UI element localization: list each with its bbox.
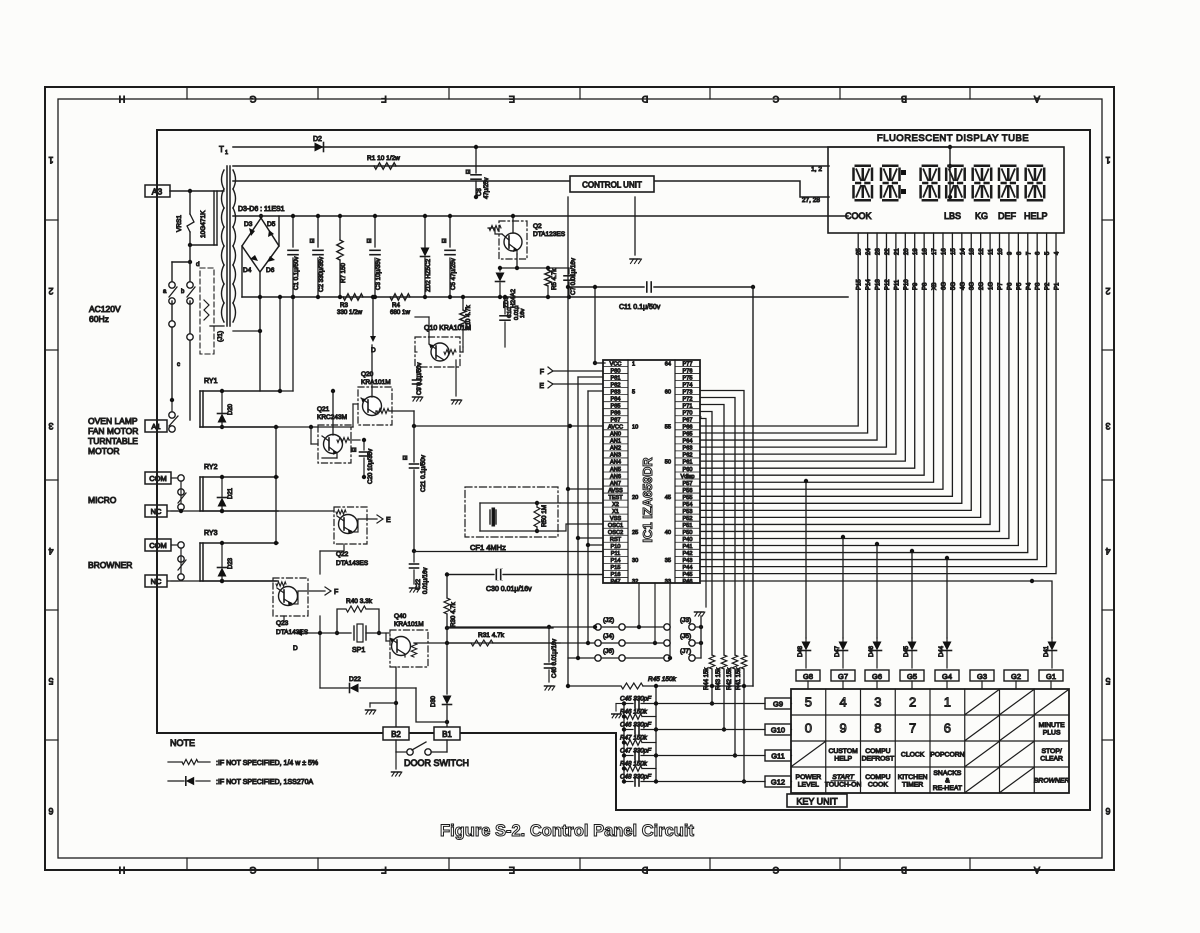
terminal NC bbox=[145, 575, 167, 587]
frame tick left bbox=[45, 609, 58, 611]
svg-text:27, 28: 27, 28 bbox=[802, 197, 820, 204]
key cell blank r4c7 bbox=[1001, 768, 1034, 792]
drawing border inner frame bbox=[58, 99, 1102, 858]
capacitor C11 0.1u/50v bbox=[568, 286, 644, 288]
IC1 pin P83 bbox=[603, 387, 628, 389]
svg-text:P2: P2 bbox=[1045, 282, 1051, 290]
svg-text:4G: 4G bbox=[960, 282, 966, 290]
svg-text:NC: NC bbox=[151, 507, 162, 516]
svg-text:2: 2 bbox=[48, 286, 53, 296]
wire RY3 bottom bbox=[168, 580, 276, 582]
ceramic resonator CF1 4MHz bbox=[465, 487, 558, 537]
positive rail bbox=[233, 215, 848, 217]
svg-text:(J3): (J3) bbox=[680, 617, 691, 624]
svg-text:F: F bbox=[381, 865, 387, 875]
display tube pin 5 wire to IC P44 bbox=[700, 233, 1047, 567]
interlock switch b bbox=[189, 262, 191, 281]
IC1 pin P66 bbox=[675, 422, 700, 424]
IC1 pin P16 bbox=[603, 569, 628, 571]
svg-text:(J7): (J7) bbox=[680, 648, 691, 655]
svg-text:C20 10μ/35v: C20 10μ/35v bbox=[367, 448, 374, 484]
IC1 pin P70 bbox=[675, 408, 700, 410]
IC1 pin P86 bbox=[603, 408, 628, 410]
svg-text:D22: D22 bbox=[349, 676, 361, 683]
wire bridge bottom down bbox=[259, 272, 261, 297]
resistor R48 150k bbox=[624, 768, 626, 770]
svg-text:(J1): (J1) bbox=[217, 331, 224, 342]
svg-text:P3: P3 bbox=[1036, 282, 1042, 290]
svg-text:TOUCH-ON: TOUCH-ON bbox=[825, 781, 862, 788]
svg-text:P13: P13 bbox=[876, 279, 882, 290]
interlock switch a bbox=[172, 261, 190, 263]
svg-text:330 1/2w: 330 1/2w bbox=[337, 309, 363, 316]
svg-text:VRS1: VRS1 bbox=[176, 215, 183, 232]
svg-text:POPCORN: POPCORN bbox=[930, 752, 964, 759]
svg-text:C1 0.1μ/50v: C1 0.1μ/50v bbox=[293, 256, 300, 290]
svg-text:1G: 1G bbox=[989, 282, 995, 290]
svg-text:F: F bbox=[381, 94, 387, 104]
svg-text:1: 1 bbox=[944, 695, 951, 710]
frame tick bottom bbox=[186, 858, 188, 870]
svg-text:22: 22 bbox=[885, 248, 891, 255]
wire G top bus bbox=[796, 675, 820, 677]
svg-text:AC120V: AC120V bbox=[89, 304, 121, 314]
IC1 pin TEST bbox=[603, 492, 628, 494]
wire bus x595 VCC bbox=[594, 287, 596, 363]
resistor R41 15k column P73-G12 bbox=[700, 391, 744, 656]
svg-text:G8: G8 bbox=[803, 672, 813, 681]
svg-text:5: 5 bbox=[1105, 676, 1110, 686]
svg-text:16: 16 bbox=[941, 248, 947, 255]
svg-text:30: 30 bbox=[632, 558, 638, 564]
svg-text:El: El bbox=[310, 239, 316, 243]
wire D2 rail junction bbox=[949, 147, 951, 197]
svg-text:15: 15 bbox=[951, 248, 957, 255]
svg-text:Q2: Q2 bbox=[533, 223, 542, 230]
terminal A3 bbox=[145, 185, 170, 197]
IC1 pin P84 bbox=[603, 394, 628, 396]
svg-text:10: 10 bbox=[632, 425, 638, 431]
display tube pin 9 wire to IC P40 bbox=[700, 233, 1009, 538]
key cell blank r1c6 bbox=[966, 690, 999, 714]
frame tick right bbox=[1102, 349, 1114, 351]
IC1 pin P51 bbox=[675, 520, 700, 522]
svg-text:D48: D48 bbox=[798, 645, 804, 657]
svg-text:G9: G9 bbox=[773, 700, 783, 709]
capacitor C46 330pF bbox=[624, 729, 633, 731]
frame tick right bbox=[1102, 609, 1114, 611]
svg-text:10G471K: 10G471K bbox=[200, 210, 207, 238]
svg-text:6: 6 bbox=[1105, 806, 1110, 816]
wire transformer primary bottom to c bbox=[210, 325, 224, 327]
svg-text:A: A bbox=[1034, 865, 1040, 875]
svg-text:8: 8 bbox=[874, 721, 881, 736]
diode D48 bbox=[805, 638, 807, 641]
wire Q20 collector up bbox=[371, 345, 373, 397]
transistor Q23 DTA143ES bbox=[273, 578, 308, 616]
wire bus x588 bbox=[587, 391, 589, 643]
svg-text:4: 4 bbox=[1105, 546, 1110, 556]
svg-text:G6: G6 bbox=[872, 672, 882, 681]
svg-text:24: 24 bbox=[866, 248, 872, 255]
svg-text:D5: D5 bbox=[267, 221, 276, 228]
svg-text:P11: P11 bbox=[894, 279, 900, 290]
svg-text:DOOR SWITCH: DOOR SWITCH bbox=[404, 758, 469, 768]
display tube pin 21 wire to IC P62 bbox=[700, 233, 896, 454]
display digit 4 bbox=[946, 166, 965, 201]
svg-text:E: E bbox=[386, 517, 391, 524]
display tube pin 11 wire to IC P51 bbox=[700, 233, 990, 524]
IC1 pin P42 bbox=[675, 548, 700, 550]
wire transformer tap bbox=[233, 330, 260, 332]
IC1 pin P82 bbox=[603, 380, 628, 382]
IC1 pin OSC1 bbox=[603, 520, 628, 522]
wire Q21 emitter to Q20 bbox=[349, 439, 360, 441]
IC1 pin P47 bbox=[603, 576, 628, 578]
svg-text:C47 330pF: C47 330pF bbox=[620, 748, 652, 755]
IC1 pin P85 bbox=[603, 401, 628, 403]
wire RY1 bottom rail to Q20 base bbox=[200, 426, 353, 428]
svg-text:20: 20 bbox=[904, 248, 910, 255]
svg-text:RY3: RY3 bbox=[204, 530, 218, 537]
IC1 pin P10 bbox=[603, 541, 628, 543]
svg-text:P5: P5 bbox=[1017, 282, 1023, 290]
ground Q10 emitter bbox=[455, 360, 457, 396]
svg-text:OVEN LAMP: OVEN LAMP bbox=[88, 416, 138, 426]
svg-text:D4: D4 bbox=[243, 267, 252, 274]
svg-text:Q21: Q21 bbox=[317, 406, 330, 413]
svg-text:55: 55 bbox=[665, 425, 671, 431]
svg-text:D3-D6 : 11ES1: D3-D6 : 11ES1 bbox=[238, 206, 285, 213]
wire bridge top to +rail bbox=[260, 216, 262, 218]
capacitor C48 330pF bbox=[624, 781, 633, 783]
svg-text:6: 6 bbox=[944, 721, 951, 736]
svg-text:3: 3 bbox=[874, 695, 881, 710]
wire key column G1 bbox=[700, 580, 1032, 582]
IC1 pin P64 bbox=[675, 436, 700, 438]
svg-text:KG: KG bbox=[975, 211, 988, 221]
wire IC bottom feeds to J rows bbox=[638, 583, 640, 627]
wire Q40 collector down to B2 bbox=[395, 667, 397, 728]
svg-text:COM: COM bbox=[149, 474, 167, 483]
IC1 pin P76 bbox=[675, 366, 700, 368]
wire ladder rail left bbox=[623, 704, 625, 782]
display tube pin 22 wire to IC P63 bbox=[700, 233, 886, 447]
wire key column tap D48 bbox=[805, 481, 807, 638]
relay contact NC1 bbox=[171, 510, 178, 512]
wire key column tap D46 bbox=[876, 544, 878, 638]
svg-text:(J5): (J5) bbox=[680, 633, 691, 640]
svg-text:COM: COM bbox=[149, 541, 167, 550]
svg-text:CLOCK: CLOCK bbox=[901, 752, 925, 759]
IC1 pin AN6 bbox=[603, 471, 628, 473]
svg-text:E: E bbox=[509, 865, 515, 875]
IC1 pin AN1 bbox=[603, 436, 628, 438]
wire IC P67 column bbox=[700, 416, 701, 418]
svg-text:T: T bbox=[219, 145, 224, 154]
capacitor C10 0.01u/16v bbox=[504, 297, 506, 314]
IC1 pin P40 bbox=[675, 534, 700, 536]
svg-text:G: G bbox=[249, 865, 256, 875]
wire Q10 area bbox=[462, 347, 464, 352]
transistor Q2 DTA123ES bbox=[499, 221, 527, 259]
svg-text:5: 5 bbox=[805, 695, 812, 710]
wire SP1 left to net D bbox=[320, 632, 337, 634]
svg-text:47μ/25v: 47μ/25v bbox=[484, 178, 490, 199]
relay contact A1 bbox=[171, 425, 172, 427]
svg-text:&: & bbox=[945, 778, 950, 785]
svg-text:NOTE: NOTE bbox=[170, 738, 195, 748]
frame tick right bbox=[1102, 219, 1114, 221]
resistor R4 680 1w bbox=[390, 294, 410, 300]
capacitor C2 330u/35s bbox=[317, 216, 319, 247]
svg-text:El: El bbox=[367, 239, 373, 243]
wire bridge left vertex down bbox=[241, 246, 243, 297]
svg-text:3: 3 bbox=[48, 421, 53, 431]
capacitor C1 0.1u/50v bbox=[292, 216, 294, 247]
svg-text:P6: P6 bbox=[1007, 282, 1013, 290]
frame tick bottom bbox=[317, 858, 319, 870]
svg-text:HELP: HELP bbox=[1024, 211, 1048, 221]
key unit keypad grid bbox=[791, 689, 1069, 793]
transistor Q22 DTA143ES bbox=[334, 507, 367, 544]
svg-text:COOK: COOK bbox=[868, 781, 888, 788]
svg-text:Q23: Q23 bbox=[276, 620, 289, 627]
IC1 pin VSS bbox=[603, 513, 628, 515]
wire bus x568 bbox=[567, 197, 569, 287]
IC1 pin P11 bbox=[603, 548, 628, 550]
frame tick bottom bbox=[448, 858, 450, 870]
frame tick right bbox=[1102, 739, 1114, 741]
node G4 bbox=[935, 670, 959, 681]
svg-text:P10: P10 bbox=[904, 279, 910, 290]
svg-text:A: A bbox=[1034, 94, 1040, 104]
wire switch to lower bus bbox=[171, 327, 173, 400]
IC1 pin P45 bbox=[675, 569, 700, 571]
key cell blank r1c7 bbox=[1001, 690, 1034, 714]
capacitor C9 0.1u/50v bbox=[415, 351, 417, 353]
resistor R31 4.7k bbox=[447, 642, 470, 644]
svg-text:H24A2: H24A2 bbox=[510, 289, 517, 308]
ground below control unit bbox=[634, 197, 636, 255]
IC1 pin P57 bbox=[675, 478, 700, 480]
IC1 pin X2 bbox=[603, 499, 628, 501]
svg-text:START: START bbox=[832, 774, 854, 781]
svg-text:El: El bbox=[442, 239, 448, 243]
svg-text:D6: D6 bbox=[266, 267, 275, 274]
svg-text:RE-HEAT: RE-HEAT bbox=[933, 785, 962, 792]
terminal B2 bbox=[383, 727, 409, 740]
svg-text:DEF: DEF bbox=[998, 211, 1017, 221]
frame tick right bbox=[1102, 479, 1114, 481]
lower rail with R3 R4 bbox=[242, 296, 848, 298]
frame tick left bbox=[45, 739, 58, 741]
svg-text:0.01μ/16v: 0.01μ/16v bbox=[423, 568, 429, 594]
wire IC P67 down to ground rail bbox=[700, 419, 706, 608]
svg-text:12: 12 bbox=[979, 248, 985, 255]
diode bridge D3 D4 D5 D6 bbox=[242, 218, 279, 272]
diode D41 bbox=[1051, 638, 1053, 641]
svg-text:LBS: LBS bbox=[944, 211, 961, 221]
diode D45 bbox=[911, 638, 913, 641]
svg-text:R4: R4 bbox=[392, 302, 400, 309]
svg-text:B1: B1 bbox=[442, 730, 452, 739]
svg-text:COMPU: COMPU bbox=[865, 774, 890, 781]
svg-text:40: 40 bbox=[665, 530, 671, 536]
display tube pin 13 wire to IC P53 bbox=[700, 233, 971, 510]
svg-text:5: 5 bbox=[632, 389, 635, 395]
key cell blank r3c6 bbox=[966, 742, 999, 766]
IC1 pin P55 bbox=[675, 492, 700, 494]
wire rail to display pins 1,2 bbox=[233, 165, 829, 167]
svg-text:C7 0.01μ/16v: C7 0.01μ/16v bbox=[570, 257, 577, 295]
svg-text:25: 25 bbox=[632, 530, 638, 536]
control unit outline box bbox=[157, 130, 1090, 810]
svg-text:d: d bbox=[196, 261, 200, 268]
svg-text:El: El bbox=[403, 456, 409, 460]
IC1 pin P62 bbox=[675, 450, 700, 452]
svg-text:F: F bbox=[334, 589, 338, 596]
svg-text:P12: P12 bbox=[885, 279, 891, 290]
svg-text:D45: D45 bbox=[904, 645, 910, 657]
svg-text:D41: D41 bbox=[1044, 645, 1050, 657]
svg-text:ZD2 HZ5C2: ZD2 HZ5C2 bbox=[425, 258, 432, 292]
capacitor C30 0.01u/16v bbox=[446, 574, 448, 576]
diode D46 bbox=[876, 638, 878, 641]
key cell blank r3c7 bbox=[1001, 742, 1034, 766]
display digit 3 bbox=[921, 166, 940, 201]
svg-text:D: D bbox=[641, 865, 648, 875]
IC1 pin P44 bbox=[675, 562, 700, 564]
svg-text:POWER: POWER bbox=[796, 774, 822, 781]
svg-text:P14: P14 bbox=[866, 279, 872, 290]
svg-text:35: 35 bbox=[665, 558, 671, 564]
wire row J4 bbox=[447, 642, 594, 644]
svg-text:TIMER: TIMER bbox=[902, 781, 923, 788]
svg-text:C9 0.1μ/50v: C9 0.1μ/50v bbox=[417, 363, 423, 395]
fluorescent display tube box bbox=[828, 147, 1064, 233]
svg-text:1: 1 bbox=[632, 361, 635, 367]
svg-text:4: 4 bbox=[840, 695, 847, 710]
terminal COM bbox=[145, 539, 171, 551]
display digit 6 bbox=[999, 166, 1018, 201]
svg-text:P9: P9 bbox=[913, 282, 919, 290]
IC1 pin P81 bbox=[603, 373, 628, 375]
svg-text:LEVEL: LEVEL bbox=[798, 781, 819, 788]
svg-text:B2: B2 bbox=[391, 730, 401, 739]
wire bus x578 bbox=[577, 377, 579, 658]
svg-text:R47 150k: R47 150k bbox=[620, 735, 648, 742]
capacitor C40 0.01u/16v bbox=[548, 627, 550, 662]
svg-text:KITCHEN: KITCHEN bbox=[898, 774, 928, 781]
wire row J6 bbox=[568, 657, 594, 659]
svg-text:c: c bbox=[177, 362, 180, 368]
IC1 pin X1 bbox=[603, 506, 628, 508]
svg-text:Q10 KRA101M: Q10 KRA101M bbox=[424, 325, 471, 332]
resistor R43 15k column P71-G10 bbox=[700, 405, 724, 656]
net label D down arrow bbox=[372, 297, 374, 336]
svg-text:CLEAR: CLEAR bbox=[1040, 755, 1063, 762]
relay contact COM1 bbox=[171, 477, 178, 479]
display tube pin 10 wire to IC P50 bbox=[700, 233, 1000, 531]
svg-text:D: D bbox=[293, 645, 298, 652]
svg-text:G4: G4 bbox=[942, 672, 952, 681]
svg-text:7: 7 bbox=[909, 721, 916, 736]
IC1 pin P43 bbox=[675, 555, 700, 557]
display tube pin 14 wire to IC P54 bbox=[700, 233, 962, 503]
frame tick bottom bbox=[969, 858, 971, 870]
capacitor C3 10u/35v bbox=[374, 216, 376, 247]
svg-text:R30 4.7k: R30 4.7k bbox=[450, 601, 457, 627]
display tube pin 7 wire to IC P42 bbox=[700, 233, 1028, 553]
resistor R46 150k bbox=[624, 716, 626, 718]
svg-text:P1: P1 bbox=[1055, 282, 1061, 290]
svg-text:IC1 IZA659DR: IC1 IZA659DR bbox=[640, 457, 655, 543]
svg-text:G7: G7 bbox=[838, 672, 848, 681]
svg-text:D47: D47 bbox=[835, 645, 841, 657]
svg-text:R3: R3 bbox=[340, 302, 348, 309]
frame tick bottom bbox=[709, 858, 711, 870]
wire Q23 down to D22 line bbox=[283, 616, 285, 622]
svg-text:KRA101M: KRA101M bbox=[361, 379, 391, 386]
svg-text:5G: 5G bbox=[951, 282, 957, 290]
svg-text:Q40: Q40 bbox=[394, 613, 407, 620]
svg-text:TURNTABLE: TURNTABLE bbox=[88, 436, 138, 446]
ground J3 J5 J7 common bbox=[700, 627, 702, 658]
svg-text:C30 0.01μ/16v: C30 0.01μ/16v bbox=[486, 586, 532, 593]
svg-text:C2 330μ/35v: C2 330μ/35v bbox=[318, 256, 325, 292]
diode D21 bbox=[221, 477, 223, 511]
IC1 pin OSC2 bbox=[603, 527, 628, 529]
svg-text:El: El bbox=[466, 170, 472, 174]
svg-text:18: 18 bbox=[923, 248, 929, 255]
resistor R1 10 1/2w bbox=[374, 163, 396, 169]
svg-text:C45 330pF: C45 330pF bbox=[620, 696, 652, 703]
svg-text:C: C bbox=[772, 94, 779, 104]
net label F arrow right bbox=[292, 603, 298, 605]
svg-text:G1: G1 bbox=[1046, 672, 1056, 681]
IC1 pin AN3 bbox=[603, 450, 628, 452]
sounder SP1 bbox=[337, 632, 351, 634]
display tube pin 23 wire to IC P64 bbox=[700, 233, 877, 440]
display tube pin 8 wire to IC P41 bbox=[700, 233, 1018, 546]
zener diode ZD3 H24A2 bbox=[499, 268, 501, 271]
wire RY coils common bbox=[275, 427, 277, 543]
IC1 pin P14 bbox=[603, 555, 628, 557]
svg-text:25: 25 bbox=[857, 248, 863, 255]
svg-text:DTA143ES: DTA143ES bbox=[336, 560, 369, 567]
svg-text::IF NOT SPECIFIED, 1/4 w ± 5%: :IF NOT SPECIFIED, 1/4 w ± 5% bbox=[216, 760, 318, 767]
IC1 pin AN7 bbox=[603, 478, 628, 480]
ground door switch bbox=[395, 752, 397, 769]
diode D44 bbox=[946, 638, 948, 641]
switch contact c bbox=[171, 301, 173, 320]
svg-text:C5 47μ/25v: C5 47μ/25v bbox=[450, 257, 457, 290]
svg-text:D21: D21 bbox=[228, 487, 234, 499]
svg-text:DEFROST: DEFROST bbox=[862, 755, 894, 762]
key cell blank r4c6 bbox=[966, 768, 999, 792]
svg-text:FAN MOTOR: FAN MOTOR bbox=[88, 426, 138, 436]
IC1 pin AN4 bbox=[603, 457, 628, 459]
svg-text:Figure S-2. Control Panel Circ: Figure S-2. Control Panel Circuit bbox=[440, 822, 694, 840]
node G11 bbox=[765, 750, 791, 761]
capacitor C47 330pF bbox=[624, 755, 633, 757]
svg-text:D3: D3 bbox=[244, 221, 253, 228]
svg-text:DTA123ES: DTA123ES bbox=[533, 231, 566, 238]
node G7 bbox=[831, 670, 855, 681]
svg-text:20: 20 bbox=[632, 495, 638, 501]
net label E arrow right bbox=[352, 531, 358, 533]
